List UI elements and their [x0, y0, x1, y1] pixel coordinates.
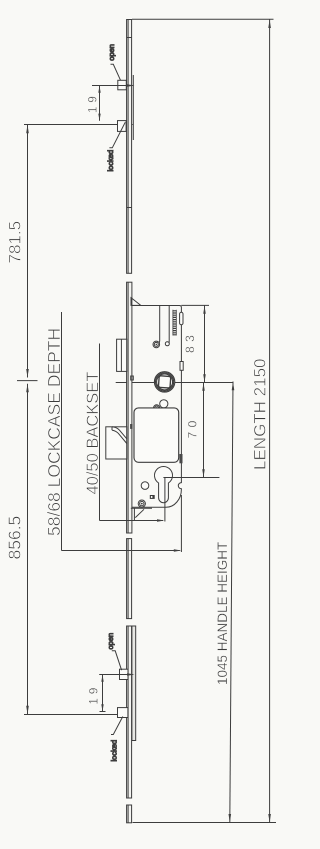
hook bolt box [106, 427, 127, 459]
screw C [154, 405, 160, 411]
screw E [138, 500, 145, 507]
wire 83 top extension [181, 304, 209, 306]
screw B plain circle [160, 400, 168, 408]
svg-text:open: open [107, 44, 116, 61]
leader locked top [109, 122, 125, 148]
dimension 19 bottom line [102, 675, 104, 712]
node cylinder vertical extension [164, 478, 166, 522]
wire top reference line [132, 18, 274, 20]
leader open top [111, 64, 121, 80]
bracket bottom left of case [131, 508, 152, 520]
svg-text:856.5: 856.5 [5, 516, 25, 560]
leader open bottom [112, 651, 122, 670]
pin box on strip at spindle height [131, 376, 134, 380]
wire backset shelf [99, 344, 101, 521]
follower hub U-square [154, 372, 174, 392]
svg-text:83: 83 [183, 331, 197, 353]
drive rod bar bottom [132, 626, 136, 741]
node spindle centre tick left [17, 380, 38, 382]
dimension 1045 HANDLE HEIGHT line [230, 382, 233, 823]
svg-text:LENGTH 2150: LENGTH 2150 [251, 359, 270, 471]
dimension 19 top line [99, 86, 101, 121]
wire upper locked reference line [24, 124, 133, 126]
spring coil [173, 310, 177, 336]
dimension 58/68 lockcase depth line with arrow [62, 550, 180, 552]
drive rod bar top [132, 75, 134, 140]
dimension 70 line [203, 383, 205, 478]
faceplate strip segment 4 [127, 626, 132, 798]
bolt bottom locked box [118, 708, 128, 718]
node cylinder centre line [163, 477, 219, 479]
latch tail left [158, 305, 160, 344]
svg-text:19: 19 [88, 684, 100, 705]
bolt top open box [118, 80, 127, 90]
latch bolt [131, 298, 141, 306]
wire depth shelf [61, 312, 63, 551]
pivot pin small circle [165, 342, 169, 346]
dimension LENGTH 2150 line [269, 20, 271, 823]
dimension 40/50 backset line with arrow [100, 520, 164, 522]
faceplate strip segment 3 [127, 539, 132, 619]
clip capsule top on back edge [180, 312, 183, 325]
clip tab mid on back edge [180, 362, 183, 371]
latch tail right [168, 305, 170, 344]
bolt top locked box [118, 121, 127, 132]
slider box left of strip [117, 339, 127, 371]
screw A [153, 341, 160, 348]
leader locked bottom [111, 717, 123, 735]
faceplate strip bottom end piece [127, 805, 132, 823]
hook bolt claw [112, 427, 127, 444]
svg-text:locked: locked [110, 740, 119, 762]
bolt bottom open box [120, 669, 129, 679]
wire back edge extension [180, 495, 182, 552]
stop pin on strip above hook [130, 424, 133, 429]
svg-text:19: 19 [87, 92, 99, 113]
wire 19 bottom tick [100, 711, 106, 713]
dimension 83 line [204, 306, 206, 383]
svg-text:70: 70 [185, 416, 199, 438]
screw D left of cylinder [141, 482, 149, 490]
faceplate strip segment 1 [127, 20, 132, 274]
svg-text:781.5: 781.5 [6, 221, 25, 264]
svg-text:open: open [106, 633, 115, 650]
wire top open centre line with arrow [92, 85, 133, 87]
wire bottom baseline [133, 822, 277, 824]
svg-text:40/50 BACKSET: 40/50 BACKSET [84, 372, 102, 495]
svg-text:locked: locked [106, 150, 115, 172]
lockcase body outline [132, 306, 181, 508]
node spindle centre line [116, 382, 233, 384]
clip tab bottom on back edge (dark) [179, 454, 182, 463]
gearbox inner case [134, 408, 179, 462]
contact block small square [150, 495, 155, 499]
wire bottom open centre line with arrow [99, 674, 133, 676]
dimension 856.5 line [27, 384, 29, 715]
svg-text:58/68 LOCKCASE DEPTH: 58/68 LOCKCASE DEPTH [44, 328, 64, 536]
dimension 781.5 line [27, 125, 29, 378]
faceplate strip segment 2 (lockcase) [127, 282, 132, 533]
svg-text:1045 HANDLE HEIGHT: 1045 HANDLE HEIGHT [215, 542, 230, 685]
euro cylinder profile [155, 466, 173, 502]
wire lower locked reference line [24, 714, 133, 716]
